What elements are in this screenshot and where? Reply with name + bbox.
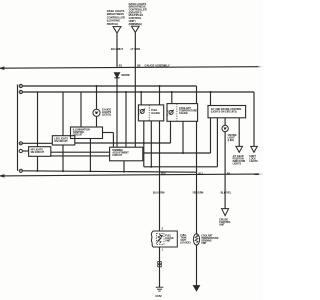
svg-text:B12: B12 [198,172,203,175]
wire A/T box output 3 to cruise light [224,118,226,126]
lamp: cruise light LED [222,125,228,131]
wire dimming adjustment circuit to bus 3 [123,161,125,172]
wire terminal E3 to led lights-on circuit [22,142,52,144]
coolant temperature sending unit oval [193,234,199,245]
wire illumination control to dimming circuit [103,132,114,134]
wire A/T box output 4 to A/T gear indicator arrow [238,118,240,147]
box: illumination control circuit [71,127,103,139]
fuel sender wiper arrow [157,236,162,243]
wire fuel gauge sender output down to fuel tank unit [159,121,161,231]
svg-text:LT GRN: LT GRN [131,47,141,51]
dimmer wire A dimming circuit to A/T box [143,152,211,154]
box: dimming adjustment circuit [110,147,143,161]
wire lights-on circuit to dimming circuit input 2 [51,155,110,157]
bus 3 horizontal wire [22,171,196,172]
fuel gauge meter symbol [140,110,144,114]
svg-text:CIRCUIT: CIRCUIT [112,154,122,157]
wire LT GRN from connector B down to dimming circuit [134,33,136,148]
svg-text:UNIT: UNIT [165,240,171,242]
bus 2 horizontal wire [22,91,254,93]
svg-text:UNIT: UNIT [201,243,207,245]
wire fuel gauge mid output down to wire B [150,121,152,167]
wire coolant gauge mid output down to wire A [182,121,184,153]
wire BLU/WHT from connector A to pin B1 [116,33,118,68]
junction bus2 x141 [140,91,142,93]
junction bus3 x63 [62,170,64,172]
wire lights-on circuit to bus 3 [37,156,39,171]
svg-text:G552: G552 [155,294,162,298]
svg-text:2: 2 [167,111,168,113]
coolant gauge internal divider [176,104,178,122]
wire B corner up to A/T box output 2 [216,118,218,167]
junction wireA coolant mid output [182,152,184,154]
diode on BLU/WHT wire [114,73,119,78]
wire W1 corner up to coolant gauge bottom-left pin [170,121,172,143]
upper boundary right end arrow [259,66,263,68]
svg-text:A/T AND CRUISE CONTROL: A/T AND CRUISE CONTROL [211,108,243,111]
coolant gauge meter symbol [169,111,173,115]
terminal E1 bus 1 [19,84,22,87]
wire illumination control circuit to bus 3 [89,139,91,172]
svg-text:(LED'S): (LED'S) [102,113,111,116]
svg-text:SWITCH): SWITCH) [107,22,118,26]
terminal E4 [19,149,22,152]
junction bus1 gauge lights [96,85,98,87]
svg-text:B10: B10 [161,172,166,175]
junction bus3 x124 [123,171,125,173]
lamp: gauge lights LED [93,109,100,116]
connector arrow B from multiplex control unit [131,26,139,32]
gauge assembly upper boundary line [0,67,259,69]
svg-text:BLU/GRN: BLU/GRN [153,192,165,195]
svg-text:1: 1 [162,247,164,251]
connector arrow A from lighting switch [113,27,121,33]
svg-text:ON CIRCUIT: ON CIRCUIT [54,141,68,143]
upper boundary arrow [1,67,4,69]
svg-text:BLU/WHT: BLU/WHT [111,47,123,51]
wire coolant sender output down to sending unit [196,121,198,234]
engine ground symbol [194,286,200,291]
junction bus1 fuel gauge [159,85,161,87]
bus 1 horizontal wire [22,85,196,87]
box: fuel tank unit with torn edge [151,231,177,247]
wire terminal E4 to lights-on circuit [22,150,28,152]
svg-text:GAUGE: GAUGE [179,112,188,115]
wire bus2 to A/T cruise lights-on box [210,92,212,106]
wire A corner up to A/T box output 1 [210,118,212,153]
box: coolant temperature gauge [167,104,198,122]
svg-text:LIGHTS: LIGHTS [249,161,258,163]
wire: diode output down to dimming adjustment circuit [116,78,118,147]
junction bus2 x172 [171,91,173,93]
gauge assembly lower boundary line [0,174,259,176]
terminal E3 [19,142,22,145]
dimmer wire W1 led box to gauges [75,142,171,144]
left internal edge wire [17,85,19,171]
svg-text:YEL/GRN: YEL/GRN [192,192,203,195]
wire led lights-on circuit to bus 3 [62,145,64,171]
svg-text:DIODE: DIODE [122,73,130,77]
svg-text:LIGHTS: LIGHTS [233,164,242,166]
junction bus3 x90 [89,170,91,172]
wire bus2 to led lights-on circuit box [62,92,64,136]
junction wireB fuel mid output [150,166,152,168]
svg-text:UNIT: UNIT [219,224,225,227]
svg-text:(DIMMING): (DIMMING) [129,22,142,26]
dimmer wire B lower collector [144,166,218,168]
wire fuel gauge top-right pin to bus1 [159,86,161,105]
lower boundary right end arrow [259,173,263,175]
svg-text:ON CIRCUIT: ON CIRCUIT [31,152,45,154]
svg-text:(LED): (LED) [228,139,235,142]
svg-text:2: 2 [162,226,164,230]
svg-text:1: 1 [167,115,168,117]
terminal E2 bus 2 [19,90,22,93]
connector C752 on fuel ground wire [158,262,162,264]
ground G552 symbol [156,286,164,288]
bus 1 corner down to coolant gauge top-right pin [196,86,198,104]
bus 2 right branch down to shift lock lights arrow [253,92,255,146]
wire fuel tank unit to ground G552 [159,247,161,287]
junction diode wire and bus 2 [116,91,118,93]
fuel sender variable resistor dashed box [156,233,164,244]
svg-text:1: 1 [139,114,140,116]
wire bus2 to fuel gauge top-left pin [140,92,142,105]
box: LED lights-on circuit [52,136,75,145]
wire bus2 to lights-on circuit box [37,92,39,147]
svg-text:GAUGE: GAUGE [151,112,160,115]
svg-text:(LIGHTS-ON CIRCUITS): (LIGHTS-ON CIRCUITS) [211,112,237,114]
junction W1 fuel gauge left output [143,142,145,144]
lower boundary arrow [1,175,4,177]
wire sending unit to engine ground [196,245,198,286]
svg-text:(GAUGE): (GAUGE) [181,242,191,245]
wire bus2 to dimming adjustment circuit [125,92,127,147]
wire bus2 to coolant gauge top-left pin [171,92,173,104]
fuel gauge internal divider [148,105,150,121]
fuel sender resistor zigzag [158,234,161,243]
svg-text:BLK/YEL: BLK/YEL [221,192,232,195]
connector arrow to shift lock lights [251,146,258,152]
connector arrow to A/T gear position indicator lights [236,146,243,152]
wire bus1 down to gauge lights lamp [96,86,98,109]
wire lights-on circuit to dimming circuit input 1 [51,151,110,153]
junction bus2 x126 [125,91,127,93]
svg-text:GAUGE ASSEMBLY: GAUGE ASSEMBLY [145,63,170,67]
terminal E5 bus 3 [19,169,22,172]
box: lights-on circuit [29,147,51,157]
connector arrow to cruise control unit [222,209,229,216]
box: fuel gauge [138,105,163,121]
junction bus3 x37 [37,170,39,172]
junction bus2 x210 [210,91,212,93]
wire cruise light down to cruise control unit [224,132,226,209]
coolant sender resistor zigzag [195,235,198,243]
box: A/T and cruise control lights-on circuits [208,106,246,118]
wire fuel gauge left output down to wire B [143,121,145,167]
svg-text:2: 2 [139,110,140,112]
wire bus2 to illumination control circuit [80,92,82,127]
wire gauge lights to illumination control circuit [96,116,98,127]
